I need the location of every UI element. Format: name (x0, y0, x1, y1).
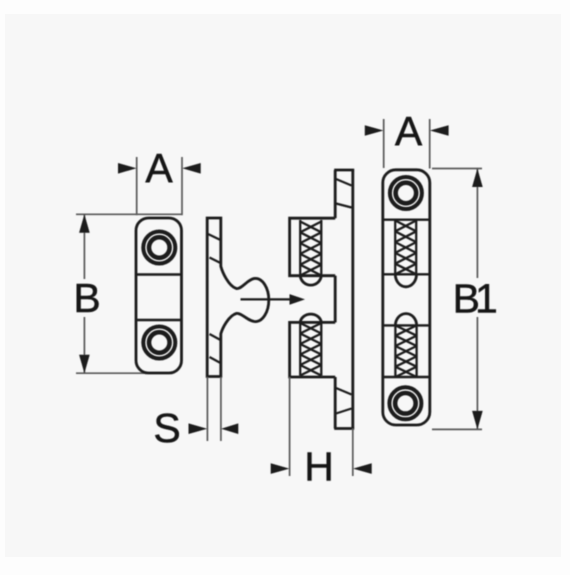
svg-text:B1: B1 (453, 275, 496, 321)
view 3: notch edge / flange face segments (334, 276, 337, 323)
dimension S: arrows (189, 423, 239, 434)
view 2: countersink hatch marks (208, 234, 221, 363)
view 4: striker plate outline (383, 170, 430, 425)
svg-text:B: B (73, 275, 100, 321)
svg-text:A: A (395, 108, 423, 154)
view 4: top screw hole (390, 177, 422, 209)
dimension A right: arrows (365, 125, 449, 136)
view 4: top roller ball end (395, 274, 416, 287)
dimension H: arrows (271, 463, 372, 474)
view 4: bottom roller knurl (395, 325, 416, 377)
view 3: catch body side profile, top housing block (290, 218, 336, 377)
svg-text:H: H (304, 444, 334, 490)
dimension B: arrows (79, 214, 90, 373)
view 4: bottom roller ball end (395, 314, 416, 326)
view 1: top screw hole (143, 232, 175, 264)
view 2: stud plate side profile (207, 218, 269, 377)
view 1: section lines (136, 275, 182, 321)
view 3: top roller knurl (300, 220, 321, 276)
view 3: bottom roller knurl (300, 323, 321, 376)
view 3: top roller ball end (300, 276, 321, 285)
view 3: bottom roller ball end (300, 314, 321, 322)
svg-text:A: A (145, 145, 173, 191)
engagement arrow (241, 294, 306, 305)
dimension A left: extension lines (137, 157, 182, 215)
dimension B1: extension lines (432, 169, 482, 430)
view 3: flange plate (334, 170, 354, 429)
svg-text:S: S (153, 405, 180, 451)
view 4: section lines (383, 220, 430, 377)
view 1: end plate outline (136, 218, 182, 373)
dimension A right: extension lines (384, 119, 430, 169)
dimension B: extension lines (76, 214, 183, 373)
view 3: flange countersink hatches bottom (336, 388, 352, 414)
dimension H: extension lines (290, 377, 353, 476)
dimension B1: arrows (472, 169, 483, 430)
view 3: flange countersink hatches top (336, 179, 352, 208)
view 4: bottom screw hole (389, 387, 421, 419)
view 1: bottom screw hole (143, 327, 175, 359)
view 4: top roller knurl (395, 221, 416, 275)
dimension A left: arrows (118, 163, 201, 174)
dimension S: extension lines (207, 377, 221, 441)
